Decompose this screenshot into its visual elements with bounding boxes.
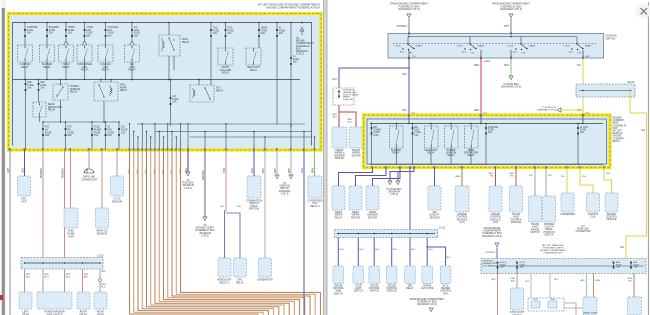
svg-text:SD-06: SD-06 [627,82,634,84]
wire tns relay feeds [198,80,200,86]
wire WHT/BLK arrow to engine compt fuse/relay box [195,150,215,237]
connector DATA LINK CONNECTOR [81,169,97,182]
wire BLU to headlight relay 2 [225,211,227,258]
fuse TNS 15A [210,22,219,85]
wire fuel pump relay down [103,101,105,122]
wire RED/BLU to front wiper washer switch [332,105,339,127]
svg-text:BLU: BLU [393,249,398,251]
cruise bus output wires BLU [338,238,433,267]
svg-text:RED: RED [474,110,479,112]
svg-text:BLU: BLU [340,249,345,251]
wire RED/YEL to transaxle control module [509,168,516,187]
wire W/T to J-B02 [550,274,559,299]
component TRANSAXLE RANGE SWITCH [529,196,542,234]
svg-text:FRONTWIPERMOTOR: FRONTWIPERMOTOR [352,149,361,157]
fuse DEF 20A [38,80,47,103]
relay HEADLIGHT RELAY [246,48,261,72]
svg-text:BLU: BLU [375,249,380,251]
fuse STARTER 30A (box B) [485,124,499,165]
fuse COND 30A [82,22,93,45]
svg-text:PNK: PNK [224,168,226,173]
engine compartment fuse/relay box (yellow outline) [9,14,322,151]
svg-text:REDYEL: REDYEL [509,173,514,178]
svg-text:REAR COMB: REAR COMB [583,312,597,315]
close button [636,4,650,19]
wire relay to row2 bus [24,62,25,80]
left scrollbar red mark [0,295,3,300]
wires WHT arrows to ignition switch [275,150,293,195]
fuse IG COIL 15A (box B) [577,123,589,165]
fuse A/C 30A [130,22,141,45]
component CRUISE CONTROL MODULE (A/T) [489,186,502,224]
svg-text:BLU: BLU [403,110,408,112]
svg-text:GRY: GRY [8,168,10,173]
component FUEL PUMP UNIT [64,208,78,239]
svg-text:REAR O2SENSOR: REAR O2SENSOR [97,230,109,236]
svg-text:PNK: PNK [101,271,106,273]
fuse ABS 10A [613,261,622,269]
svg-text:PNK: PNK [87,168,89,173]
svg-text:WHT: WHT [263,167,265,173]
component IGNITION COIL [587,193,600,219]
wire YEL to ignition coil [580,168,593,194]
wire GRN arrow to fuse box [501,50,521,89]
wire relay to row2 bus [65,62,66,80]
relay CONDENSER FAN RELAY [77,45,92,72]
component CRUISE CONTROL MODULE [386,266,398,293]
wire YEL to condenser [561,168,567,194]
svg-text:RED: RED [179,169,181,174]
svg-text:DRL: DRL [237,206,242,208]
relay FRONT FOGLAMP RELAY [218,48,233,75]
component RIGHT REAR window switch [94,292,107,315]
component CLUTCH PEDAL POSITION SWITCH [543,196,556,236]
panel divider [324,0,328,315]
fuse MR JUMBO 100A [371,124,382,165]
svg-text:ON: ON [412,56,416,58]
svg-text:IGNITIONSWITCH: IGNITIONSWITCH [606,35,617,41]
svg-text:BLU: BLU [22,168,24,173]
relay TNS RELAY [190,85,224,102]
svg-text:ACC: ACC [569,51,574,54]
wire YEL from ignition switch [577,50,591,115]
wire relay to row2 bus [105,62,106,80]
component DRL RELAY [405,266,416,290]
svg-text:PNK: PNK [491,279,496,281]
wire YEL to engine control module [604,168,612,194]
ignition switch contact set 4 [564,37,593,55]
fuse IG2 10A [118,122,128,150]
svg-text:BRN: BRN [455,176,460,178]
svg-text:RED: RED [154,169,156,174]
component DRL RELAY [234,258,247,285]
component LEFT REAR window switch [19,292,32,315]
svg-text:RED: RED [474,65,479,67]
connector bus C-211 [335,228,446,238]
row2 bus wire [13,79,301,81]
component COMBINATION SWITCH (PASS SWITCH) [246,176,263,211]
svg-text:REDBLU: REDBLU [347,119,352,124]
svg-text:START: START [484,60,492,63]
fuse IG 30A [105,122,115,150]
ignition switch internal bus [393,36,598,44]
fuse FUEL 15A [91,122,101,150]
wires BLU arrows to fuse box 2of3 [386,168,414,197]
wire rear defroster relay down [39,117,41,122]
svg-text:REDBLU: REDBLU [332,114,337,119]
component STOP LIGHT SWITCH [353,266,364,293]
wire BLU to drl relay [226,213,240,258]
component bottom right module [628,297,642,315]
fuse box behind dash WIPER fuse [333,88,359,105]
ignition switch contact set 3 [508,37,537,55]
svg-text:RED: RED [128,169,130,174]
wire BLU to rear wiper relay [339,168,373,187]
wire RED/YEL bottom right [628,274,634,298]
svg-text:ON: ON [471,53,475,55]
svg-text:RED: RED [171,169,173,174]
svg-text:BLU: BLU [302,168,304,173]
wire W/T to transaxle range switch [529,168,535,197]
relay A/C CON RELAY [125,45,140,72]
svg-text:BLU: BLU [360,249,365,251]
box B exit pins [371,166,604,168]
svg-text:WHT: WHT [504,26,510,28]
wire W/T to J-B01 [525,274,531,299]
component REAR WASHER MOTOR [366,186,379,219]
svg-text:FROM ENGINECOMPARTMENTFUSE/REL: FROM ENGINECOMPARTMENTFUSE/RELAY BOX(DIA… [482,228,502,238]
relay MAIN RELAY [159,22,190,56]
relay REAR DEFROSTER RELAY (box B) [464,124,479,165]
wire W/T to clutch pedal position switch [546,168,553,197]
svg-text:RIGHTREAR: RIGHTREAR [97,311,105,315]
fuse ALT 10A [170,79,179,126]
svg-text:TRANSAXLERANGESWITCH: TRANSAXLERANGESWITCH [530,223,540,234]
svg-text:DRLUNIT: DRLUNIT [21,198,27,204]
component RIGHT FRONT window switch [77,292,90,315]
connector bus C-210 [21,255,104,270]
arrow feed 1 [397,14,411,34]
fuse HORN 15A [64,22,75,45]
wire BLU/WHT to DRL unit [24,150,26,176]
svg-text:C-211: C-211 [439,228,446,230]
wire RED/BLU branch to front wiper motor [339,112,356,127]
ignition switch pins [408,32,584,59]
component TRANSAXLE CONTROL MODULE [510,186,523,224]
component REAR COMBINATION LIGHT [583,297,597,315]
ignition switch contact set 2 [457,37,486,55]
caption from engine compartment fuse/relay box 3of3 [410,298,445,312]
svg-text:BLU: BLU [252,168,254,173]
svg-text:W/T: W/T [529,175,534,177]
row3 feed wire [43,121,119,123]
svg-text:BLU/WHT: BLU/WHT [486,252,496,254]
svg-text:YEL: YEL [620,247,625,249]
wire BRN to engine control module AT [455,168,462,187]
wire PNK from junction box right 1 [564,303,576,315]
component STOP LIGHT SWITCH [510,288,525,315]
svg-text:FUELPUMPUNIT: FUELPUMPUNIT [67,230,75,239]
svg-text:GRN: GRN [504,65,509,67]
fuse MR AUX 15A [412,124,421,165]
svg-text:POWER WINDOWMAIN SWITCH: POWER WINDOWMAIN SWITCH [44,311,65,315]
svg-text:WHT/BLK: WHT/BLK [203,170,205,181]
svg-text:WHT: WHT [289,167,291,173]
component DRL UNIT [18,176,31,204]
component ENGINE CONTROL MODULE (A/T) [455,186,469,224]
svg-text:LOCK: LOCK [457,46,463,48]
svg-text:START: START [416,45,424,48]
fuse IG 30A [276,22,285,124]
svg-text:LOCK: LOCK [395,46,401,48]
svg-text:YEL: YEL [577,65,582,67]
svg-text:REDYEL: REDYEL [489,173,494,178]
svg-text:GRN: GRN [580,280,585,282]
svg-text:BLU: BLU [447,257,452,259]
svg-text:ACC: ACC [462,51,467,54]
wire BLU from ignition switch [403,50,416,115]
ignition switch box [388,34,604,59]
wire BLU branch to wiper fuse box [333,68,409,88]
wire PNK/BLK to stop light switch [511,274,518,289]
svg-text:LOCK: LOCK [508,46,514,48]
wire RED from ignition switch [474,50,491,115]
component AIR QUALITY SENSOR [428,186,441,219]
arrow feed kick panel fuse box [486,243,499,259]
wire BLU to rear washer motor [373,168,401,187]
relay STARTER RELAY [18,45,33,69]
box B bottom bus [370,164,603,166]
component CONDENSER FAN RELAY 2 [307,176,323,208]
fuse DRL 10A [25,80,34,151]
wire YEL to fuse box arrow [537,107,583,112]
component CRUISE CONTROL SWITCH [369,266,381,293]
relay COOLING FAN RELAY [98,45,113,72]
svg-text:YEL: YEL [641,130,646,132]
connector box J-B01 J-B02 [528,298,564,311]
fuse IG- 30A [290,22,299,126]
wire main relay down [168,56,170,80]
svg-text:ACC: ACC [513,51,518,54]
fuse A/B ECU 10A [630,261,639,269]
wire BLU to air quality sensor [434,168,436,187]
box B internal bus [370,115,603,124]
wire GRN to rear combination light [580,274,587,298]
fuse P/O 30A [65,122,75,150]
svg-text:PNKBLK: PNKBLK [511,278,516,283]
svg-text:ON: ON [522,53,526,55]
fuse HEAD 30A [258,22,267,48]
wire BLU down offscreen [303,150,305,315]
fuse FOG 15A [225,22,234,48]
svg-text:TO FUSE BOX(DIAGRAM 2 OF 3): TO FUSE BOX(DIAGRAM 2 OF 3) [501,84,521,89]
component LF O2 SENSOR [111,176,124,204]
svg-text:RIGHTFRONT: RIGHTFRONT [79,311,88,315]
bus output wires PNK/BLU [25,269,107,292]
wire BLU to rear wiper motor [356,168,387,187]
wire BLU elbow to a/c heater control unit [426,246,451,266]
svg-text:RED: RED [137,169,139,174]
wire relay to row2 bus [131,62,132,80]
svg-text:RED: RED [162,169,164,174]
cruise bus junction dots [338,233,429,235]
box B entry pins [408,113,590,117]
svg-text:START: START [585,45,593,48]
svg-text:(AT LEFT REAR SIDE OF ENGINE C: (AT LEFT REAR SIDE OF ENGINE COMPARTMENT… [258,3,321,10]
wire PNK to rear O2 sensor [101,150,103,208]
svg-text:ON: ON [578,53,582,55]
wire PNK to window bus 1 [42,150,44,258]
svg-text:GRN: GRN [312,168,314,173]
svg-text:LOCK: LOCK [564,46,570,48]
wire YEL connector to box B [626,91,647,259]
component ENGINE CONTROL MODULE [605,193,618,221]
relay BLOWER RELAY (box B) [390,124,404,165]
svg-text:FRONTWIPER &WASHERSWITCH: FRONTWIPER &WASHERSWITCH [334,149,345,160]
arrow to engine compartment fuse/relay box diagram 2 of 3 [296,22,314,56]
fuse COOLING 30A [105,22,119,45]
svg-text:REARWIPERRELAY: REARWIPERRELAY [335,211,343,219]
svg-text:BRN: BRN [596,280,601,282]
svg-text:J-B01: J-B01 [533,299,539,301]
wire PNK to window bus 2 [64,150,66,258]
svg-text:ACC: ACC [586,55,591,58]
relay BLOWER RELAY [40,45,55,69]
fuse STARTER 30A [24,22,38,45]
routing rail 2 [155,131,312,133]
wire RED/YEL to cruise control module AT [489,168,496,187]
svg-text:PNK/BLU: PNK/BLU [62,168,64,178]
wire PNK to fuel pump unit [70,150,72,208]
svg-text:BLU: BLU [403,74,408,76]
component CONDENSER [560,193,575,216]
relay POWER WINDOW RELAY (box B) [445,124,459,165]
wire GRN to condenser fan relay 2 [314,150,316,176]
svg-text:BLU: BLU [411,249,416,251]
wire relay to row2 bus [46,62,47,80]
relay HORN RELAY [59,45,74,69]
component A/C & HEATER CONTROL UNIT [440,266,452,295]
wire WHT to generator [264,150,266,258]
component FRONT WIPER MOTOR [350,127,363,157]
routing rail 1 [137,123,305,125]
relay HEADLIGHT RELAY (box B) [424,124,438,165]
fuse STOP 10A [516,262,525,274]
routing rail verticals to bottom border [129,123,315,150]
box B inner border [367,119,607,164]
svg-text:START: START [478,45,486,48]
svg-text:WHT: WHT [275,167,277,173]
wire PNK tail down [491,274,498,315]
relay REAR DEFROSTER RELAY [33,102,63,117]
left scrollbar [1,0,6,315]
wire BRN to rear combination light [594,274,601,298]
fuse P/O 30A [42,122,52,150]
bottom border pin squares [9,148,315,150]
svg-text:H/S: H/S [220,206,224,208]
wire PNK from junction box right 2 [564,308,584,315]
component REAR WIPER RELAY [332,186,345,219]
fuse box behind left kick panel [481,259,646,274]
arrow feed 2 [504,14,513,34]
wire BLU combination switch [253,150,255,176]
fuse ECU-B 10A [497,262,507,274]
wire BLU arrow to fuse box diagram 2of3 [182,150,194,190]
wire BLU feed to cruise bus [409,168,411,230]
svg-text:BLU: BLU [333,79,338,81]
component HEADLIGHT RELAY 2 [217,258,232,285]
fuse box inner border [13,23,312,146]
svg-text:GENERATOR: GENERATOR [257,279,273,282]
component CRUISE CONTROL MAIN SWITCH [333,266,345,295]
wire PNK to data link connector [88,150,90,169]
svg-text:START: START [529,45,537,48]
svg-text:PNK/BLU: PNK/BLU [41,168,43,178]
connector SD-06 [576,82,635,97]
svg-text:RED: RED [145,169,147,174]
svg-text:C-210: C-210 [97,255,104,258]
wire GRY ground left [9,150,11,315]
wire PNK headlight/drl feed [220,150,242,211]
svg-text:ACC: ACC [400,51,405,54]
routing rail 3 [190,136,312,138]
component POWER WINDOW MAIN SWITCH [37,292,72,315]
component FRONT WIPER & WASHER SWITCH [332,127,347,160]
component GENERATOR [257,258,273,282]
label YEL right [620,130,646,249]
wire PNK to LF O2 sensor [116,150,118,176]
tan wire bundle to right [128,150,320,315]
svg-text:DATA LINKCONNECTOR: DATA LINKCONNECTOR [81,176,97,182]
wire relay to row2 bus [84,62,85,80]
svg-text:CONDENSER: CONDENSER [560,214,575,216]
relay POWER WINDOW RELAY [53,80,81,101]
svg-text:WHT/BLU: WHT/BLU [397,26,408,28]
svg-text:W/T: W/T [548,175,553,177]
component REAR WIPER MOTOR [349,186,362,219]
component INTAKE ACTUATOR [421,266,434,290]
fuse BLOWER 30A [46,22,59,45]
svg-text:J-B02: J-B02 [550,299,556,301]
relay FUEL PUMP RELAY [94,80,128,102]
engine compartment fuse/relay box 2 (yellow outline) [364,115,611,168]
component REAR O2 SENSOR [96,208,109,236]
svg-text:LEFTREAR: LEFTREAR [22,311,29,315]
svg-text:BLU: BLU [428,249,433,251]
wire power window relay down [60,100,62,122]
right edge line [647,2,649,315]
ignition switch contact set 1 [395,37,424,55]
